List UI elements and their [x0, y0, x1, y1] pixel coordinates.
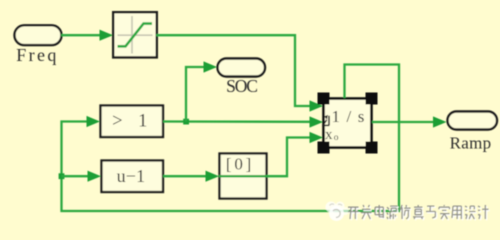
gain block u-1: [102, 161, 164, 193]
outport SOC: [218, 59, 266, 97]
svg-text:> 1: > 1: [112, 112, 153, 132]
branch wire junction to SOC: [186, 61, 217, 121]
junction node on feedback: [59, 173, 65, 179]
svg-text:1/s: 1/s: [332, 107, 371, 126]
wire integrator output to Ramp: [372, 116, 447, 127]
wire through IC block to integrator port 3: [219, 132, 323, 176]
wire Freq to saturation: [61, 30, 113, 41]
svg-text:o: o: [334, 133, 339, 143]
saturation block U_sat: [113, 12, 157, 57]
junction node on >1 output: [183, 119, 189, 125]
reset trigger icon: [322, 124, 329, 126]
svg-text:x: x: [325, 127, 333, 143]
svg-text:[0]: [0]: [226, 155, 254, 174]
selection handle top-left: [318, 93, 330, 105]
svg-text:SOC: SOC: [226, 76, 257, 96]
outport Ramp: [448, 112, 498, 153]
branch feedback to u-1: [62, 171, 102, 182]
wire u-1 to IC block: [163, 171, 219, 182]
inport Freq: [15, 25, 62, 65]
selection handle top-right: [366, 93, 378, 105]
svg-text:u−1: u−1: [117, 166, 146, 186]
watermark text (stylized CJK strokes): [348, 205, 490, 220]
svg-text:Ramp: Ramp: [450, 133, 492, 152]
watermark logo: [326, 202, 350, 222]
svg-text:Freq: Freq: [16, 45, 59, 65]
wire >1 output to integrator port 2: [163, 116, 323, 127]
wire saturation to integrator port 1: [156, 35, 323, 111]
selection handle bottom-right: [366, 142, 378, 154]
relational operator block > 1: [101, 106, 164, 138]
selection handle bottom-left: [318, 142, 330, 154]
state port feedback wire: [62, 65, 400, 212]
IC block [0]: [220, 154, 267, 199]
integrator block 1/s: [322, 99, 371, 148]
